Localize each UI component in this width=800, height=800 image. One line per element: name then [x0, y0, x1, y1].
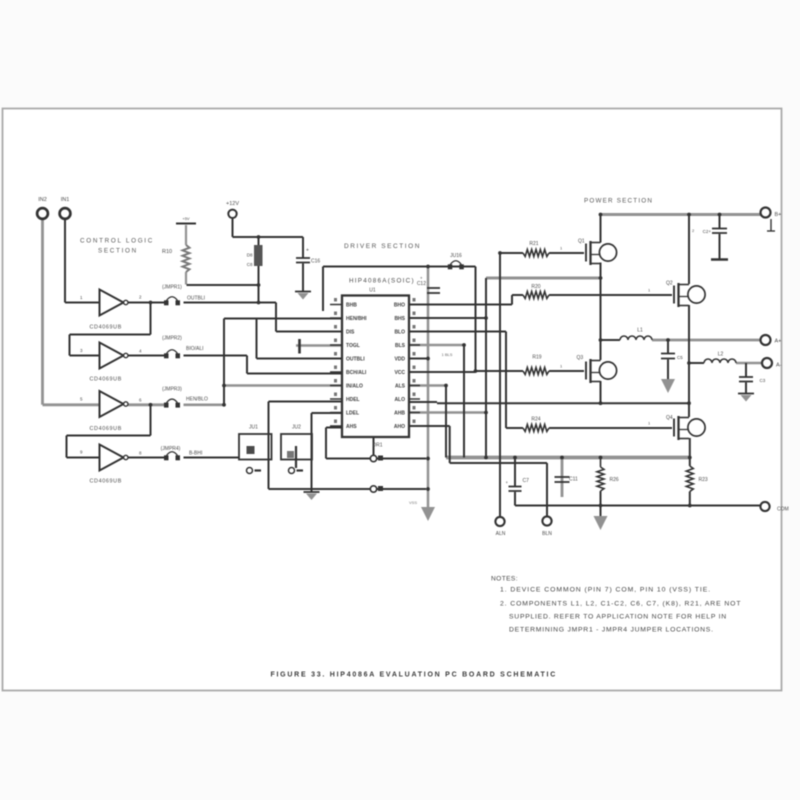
svg-text:AHS: AHS — [346, 424, 357, 430]
svg-text:+: + — [420, 276, 423, 281]
svg-text:JU1: JU1 — [249, 425, 258, 431]
svg-text:CD4069UB: CD4069UB — [90, 426, 122, 432]
svg-text:HDEL: HDEL — [346, 397, 360, 403]
svg-text:IN/ALO: IN/ALO — [346, 384, 363, 390]
svg-text:CD4069UB: CD4069UB — [90, 325, 122, 331]
svg-text:(JMPR4): (JMPR4) — [161, 446, 181, 452]
svg-text:+12V: +12V — [226, 201, 239, 207]
svg-text:C2+: C2+ — [703, 229, 712, 234]
svg-text:(JMPR2): (JMPR2) — [162, 336, 182, 342]
svg-text:SECTION: SECTION — [98, 248, 138, 255]
svg-text:ALO: ALO — [394, 397, 405, 403]
svg-text:C3: C3 — [760, 378, 766, 383]
svg-text:AHB: AHB — [394, 411, 405, 417]
svg-text:R24: R24 — [531, 417, 540, 423]
svg-text:C7: C7 — [523, 478, 530, 484]
svg-text:L1: L1 — [637, 328, 643, 334]
svg-text:A-: A- — [776, 363, 782, 369]
svg-text:OUTBLI: OUTBLI — [346, 357, 365, 363]
svg-text:B-BHI: B-BHI — [189, 451, 202, 457]
svg-text:JU16: JU16 — [450, 253, 462, 259]
svg-text:C12: C12 — [417, 281, 426, 287]
svg-text:L2: L2 — [718, 352, 724, 358]
svg-text:R23: R23 — [699, 477, 708, 483]
svg-text:BLN: BLN — [542, 531, 552, 537]
svg-text:DIS: DIS — [346, 330, 355, 336]
svg-text:HEN/BHI: HEN/BHI — [346, 316, 367, 322]
svg-text:HIP4086A(SOIC): HIP4086A(SOIC) — [349, 278, 415, 285]
svg-text:POWER SECTION: POWER SECTION — [584, 198, 653, 205]
svg-text:FIGURE 33. HIP4086A EVALUATION: FIGURE 33. HIP4086A EVALUATION PC BOARD … — [270, 672, 557, 679]
svg-text:BHO: BHO — [394, 303, 405, 309]
svg-text:C16: C16 — [311, 259, 320, 265]
svg-text:1. DEVICE COMMON (PIN 7) COM,: 1. DEVICE COMMON (PIN 7) COM, PIN 10 (VS… — [500, 587, 711, 594]
svg-text:CD4069UB: CD4069UB — [90, 479, 122, 485]
svg-text:IN1: IN1 — [61, 197, 70, 203]
svg-text:SUPPLIED. REFER TO APPLICATION: SUPPLIED. REFER TO APPLICATION NOTE FOR … — [509, 614, 727, 621]
svg-text:VCC: VCC — [394, 370, 405, 376]
svg-text:R26: R26 — [610, 477, 619, 483]
svg-text:C11: C11 — [569, 477, 578, 483]
svg-text:D8: D8 — [247, 253, 253, 258]
svg-text:+5V: +5V — [182, 216, 190, 221]
svg-text:TOGL: TOGL — [346, 343, 360, 349]
svg-text:U1: U1 — [369, 288, 376, 294]
svg-text:1 BLS: 1 BLS — [442, 352, 453, 357]
svg-text:B+: B+ — [775, 212, 782, 218]
svg-text:R21: R21 — [529, 241, 538, 247]
svg-text:DETERMINING JMPR1 - JMPR4 JUMP: DETERMINING JMPR1 - JMPR4 JUMPER LOCATIO… — [509, 627, 714, 634]
svg-text:Q1: Q1 — [578, 239, 585, 245]
svg-text:JU2: JU2 — [292, 425, 301, 431]
svg-text:R19: R19 — [532, 355, 541, 361]
svg-text:(JMPR3): (JMPR3) — [162, 387, 182, 393]
svg-text:CD4069UB: CD4069UB — [90, 377, 122, 383]
svg-text:A+: A+ — [775, 339, 782, 345]
svg-text:(JMPR1): (JMPR1) — [162, 285, 182, 291]
svg-text:R20: R20 — [531, 284, 540, 290]
svg-text:DR1: DR1 — [372, 443, 382, 449]
svg-text:VDD: VDD — [394, 357, 405, 363]
svg-text:CONTROL LOGIC: CONTROL LOGIC — [80, 238, 154, 245]
svg-text:BCH/ALI: BCH/ALI — [346, 370, 367, 376]
svg-text:ALS: ALS — [395, 384, 406, 390]
svg-text:ALN: ALN — [496, 531, 506, 537]
svg-text:BIO/ALI: BIO/ALI — [186, 346, 204, 352]
svg-text:OUTBLI: OUTBLI — [187, 296, 205, 302]
svg-text:LDEL: LDEL — [346, 411, 359, 417]
svg-text:Q2: Q2 — [666, 281, 673, 287]
svg-text:HEN/BLO: HEN/BLO — [186, 397, 208, 403]
svg-text:C8: C8 — [247, 262, 253, 267]
svg-text:BLS: BLS — [395, 343, 406, 349]
svg-text:IN2: IN2 — [38, 197, 47, 203]
svg-text:AHO: AHO — [394, 424, 405, 430]
svg-text:VSS: VSS — [409, 500, 417, 505]
svg-text:BHB: BHB — [346, 303, 357, 309]
svg-text:COM: COM — [777, 507, 789, 513]
svg-text:Q4: Q4 — [666, 415, 673, 421]
svg-text:Q3: Q3 — [577, 355, 584, 361]
svg-text:+: + — [306, 248, 309, 254]
svg-text:BLO: BLO — [394, 330, 405, 336]
svg-text:C5: C5 — [677, 355, 683, 360]
svg-text:BHS: BHS — [394, 316, 405, 322]
svg-text:DRIVER SECTION: DRIVER SECTION — [344, 243, 421, 250]
svg-text:+: + — [505, 480, 508, 485]
svg-text:R10: R10 — [162, 249, 172, 255]
svg-text:NOTES:: NOTES: — [491, 576, 518, 583]
svg-text:2. COMPONENTS L1, L2, C1-C2, C: 2. COMPONENTS L1, L2, C1-C2, C6, C7, (K8… — [500, 601, 741, 608]
